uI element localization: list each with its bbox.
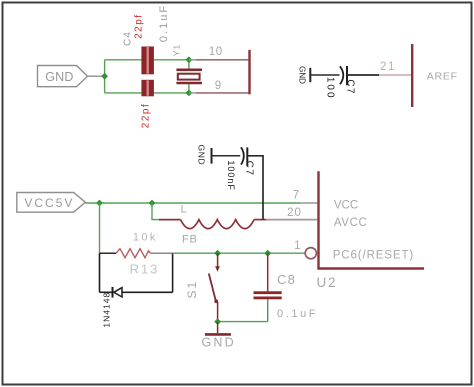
junction S1/GND <box>214 318 221 325</box>
wire GND to C7 <box>310 74 339 76</box>
svg-text:1N4148: 1N4148 <box>101 292 111 328</box>
junction VCC/R13 branch <box>96 200 103 207</box>
ground symbol GND (bottom) <box>217 322 219 333</box>
wire VCC down to R13 <box>99 203 101 253</box>
svg-text:C8: C8 <box>277 272 296 287</box>
wire VCC net horizontal <box>85 202 300 204</box>
svg-text:22pf: 22pf <box>141 103 152 128</box>
svg-text:C7: C7 <box>345 79 356 94</box>
svg-text:100nF: 100nF <box>226 160 236 191</box>
wire GND to C7 <box>212 155 241 157</box>
capacitor C7 100 (polarized) <box>340 66 343 84</box>
pin 7 wire <box>300 202 317 204</box>
junction XTAL1 <box>186 56 193 63</box>
resistor R13 leads <box>100 252 117 254</box>
pin 20 wire <box>266 219 317 221</box>
svg-text:GND: GND <box>45 70 73 84</box>
junction XTAL2 <box>186 90 193 97</box>
svg-text:7: 7 <box>293 189 299 201</box>
junction VCC/FB branch <box>149 200 156 207</box>
pin 1 bubble <box>305 248 316 259</box>
svg-text:AVCC: AVCC <box>334 217 368 229</box>
IC U2 edge <box>319 171 425 268</box>
resistor R13 zigzag <box>116 249 151 258</box>
svg-text:10k: 10k <box>133 232 158 244</box>
pin 21 wire <box>379 74 411 76</box>
IC U2 edge fragment (AREF) <box>411 44 413 107</box>
capacitor C8 <box>267 253 269 291</box>
svg-text:20: 20 <box>287 207 302 219</box>
svg-text:VCC: VCC <box>334 199 358 211</box>
svg-text:PC6(/RESET): PC6(/RESET) <box>333 250 414 262</box>
diode 1N4148 <box>112 287 114 298</box>
svg-text:FB: FB <box>182 233 198 245</box>
svg-text:U2: U2 <box>317 275 338 290</box>
svg-text:C4: C4 <box>123 31 134 46</box>
supply symbol GND (tag) <box>38 66 105 87</box>
wire reset net <box>173 252 305 254</box>
svg-text:0.1uF: 0.1uF <box>277 308 318 320</box>
svg-text:0.1uF: 0.1uF <box>158 4 170 42</box>
wire top (XTAL1 net) <box>105 59 142 61</box>
junction reset/S1 <box>214 250 221 257</box>
svg-text:100: 100 <box>325 77 336 100</box>
svg-text:GND: GND <box>298 66 307 84</box>
svg-text:10: 10 <box>209 46 223 58</box>
diode D1 branch wires <box>100 253 173 292</box>
svg-text:R13: R13 <box>130 262 160 277</box>
junction at GND tag <box>101 73 108 80</box>
IC U2 edge fragment (XTAL pins) <box>248 50 250 94</box>
svg-text:GND: GND <box>202 336 236 350</box>
svg-text:C7: C7 <box>244 161 255 177</box>
wire S1/C8 bottom net <box>218 321 268 323</box>
wire bottom (XTAL2 net) <box>105 92 142 94</box>
svg-text:AREF: AREF <box>427 70 458 82</box>
capacitor C4 22pf (top) <box>141 47 154 75</box>
svg-text:VCC5V: VCC5V <box>24 196 74 210</box>
svg-text:GND: GND <box>197 145 207 166</box>
inductor FB (L) <box>159 220 266 229</box>
switch S1 <box>209 253 218 321</box>
capacitor C7 100nF (polarized) <box>241 147 244 164</box>
junction reset/C8 <box>264 250 271 257</box>
wire crystal stubs <box>188 60 190 70</box>
svg-text:S1: S1 <box>185 280 199 299</box>
svg-text:L: L <box>181 204 187 216</box>
pin 10 wire <box>189 59 196 61</box>
crystal Y1 <box>176 70 202 83</box>
capacitor 22pf (bottom) <box>141 80 154 97</box>
wire C7 to AVCC net <box>247 156 263 220</box>
pin 9 wire <box>189 92 196 94</box>
svg-text:9: 9 <box>215 80 221 92</box>
svg-text:1: 1 <box>294 240 300 252</box>
wire GND net left vertical <box>105 60 189 93</box>
wire VCC to FB <box>152 203 159 220</box>
svg-text:21: 21 <box>380 61 396 73</box>
svg-text:Y1: Y1 <box>172 44 182 56</box>
svg-text:22pf: 22pf <box>134 13 145 38</box>
wire C7 to pin 21 <box>347 74 379 76</box>
supply symbol VCC5V (tag) <box>17 193 86 213</box>
